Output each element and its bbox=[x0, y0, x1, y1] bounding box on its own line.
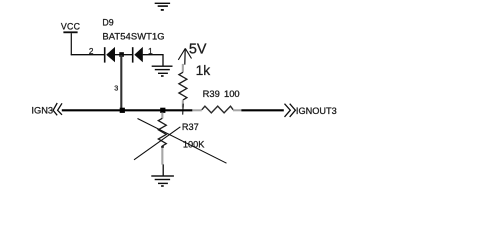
svg-text:R37: R37 bbox=[182, 122, 199, 132]
wire net IGN3 (left segment to R39) bbox=[62, 109, 193, 111]
wire between diode halves (center tap) bbox=[115, 54, 132, 56]
wire VCC to diode D9 pin 2 bbox=[71, 54, 104, 56]
svg-text:BAT54SWT1G: BAT54SWT1G bbox=[102, 31, 164, 42]
resistor R39 (horizontal, in line) bbox=[192, 106, 241, 113]
ground (at diode D9 pin 1) bbox=[152, 66, 173, 77]
junction dot (center tap drop) bbox=[120, 108, 125, 113]
junction dot (R37 drop) bbox=[160, 108, 165, 113]
wire R37 to ground bbox=[162, 164, 164, 175]
cross-out line (upper-left to lower-right) bbox=[138, 119, 227, 164]
svg-text:IGN3: IGN3 bbox=[31, 106, 53, 116]
resistor 1k (vertical) bbox=[179, 64, 187, 115]
svg-text:1k: 1k bbox=[196, 63, 211, 78]
wire diode center tap down to net IGN3 bbox=[120, 55, 122, 110]
svg-text:100K: 100K bbox=[183, 140, 205, 150]
diode D9 first half (cathode bar + triangle) bbox=[104, 47, 115, 63]
svg-text:IGNOUT3: IGNOUT3 bbox=[296, 106, 337, 116]
junction dot diode center tap bbox=[119, 52, 124, 57]
wire diode D9 pin 1 to ground bbox=[143, 55, 163, 66]
resistor R37 (vertical) bbox=[158, 113, 166, 165]
port chevrons IGNOUT3 bbox=[285, 104, 296, 117]
power symbol 5V (arrow) bbox=[178, 48, 191, 64]
ground (bottom, under R37) bbox=[151, 175, 174, 187]
port chevrons IGN3 bbox=[53, 103, 62, 115]
svg-text:2: 2 bbox=[89, 47, 94, 56]
power symbol VCC bbox=[61, 21, 81, 55]
svg-text:R39: R39 bbox=[203, 88, 220, 99]
cross-out line (lower-left to upper-right) bbox=[134, 127, 180, 160]
svg-text:100: 100 bbox=[224, 88, 240, 99]
svg-text:5V: 5V bbox=[189, 41, 207, 57]
ground (top, clipped at image edge) bbox=[155, 3, 170, 11]
wire net IGNOUT3 (right segment) bbox=[241, 109, 283, 111]
svg-text:D9: D9 bbox=[102, 17, 113, 27]
svg-text:VCC: VCC bbox=[61, 21, 81, 31]
svg-text:3: 3 bbox=[114, 83, 118, 92]
diode D9 second half (cathode bar + triangle) bbox=[132, 47, 143, 63]
